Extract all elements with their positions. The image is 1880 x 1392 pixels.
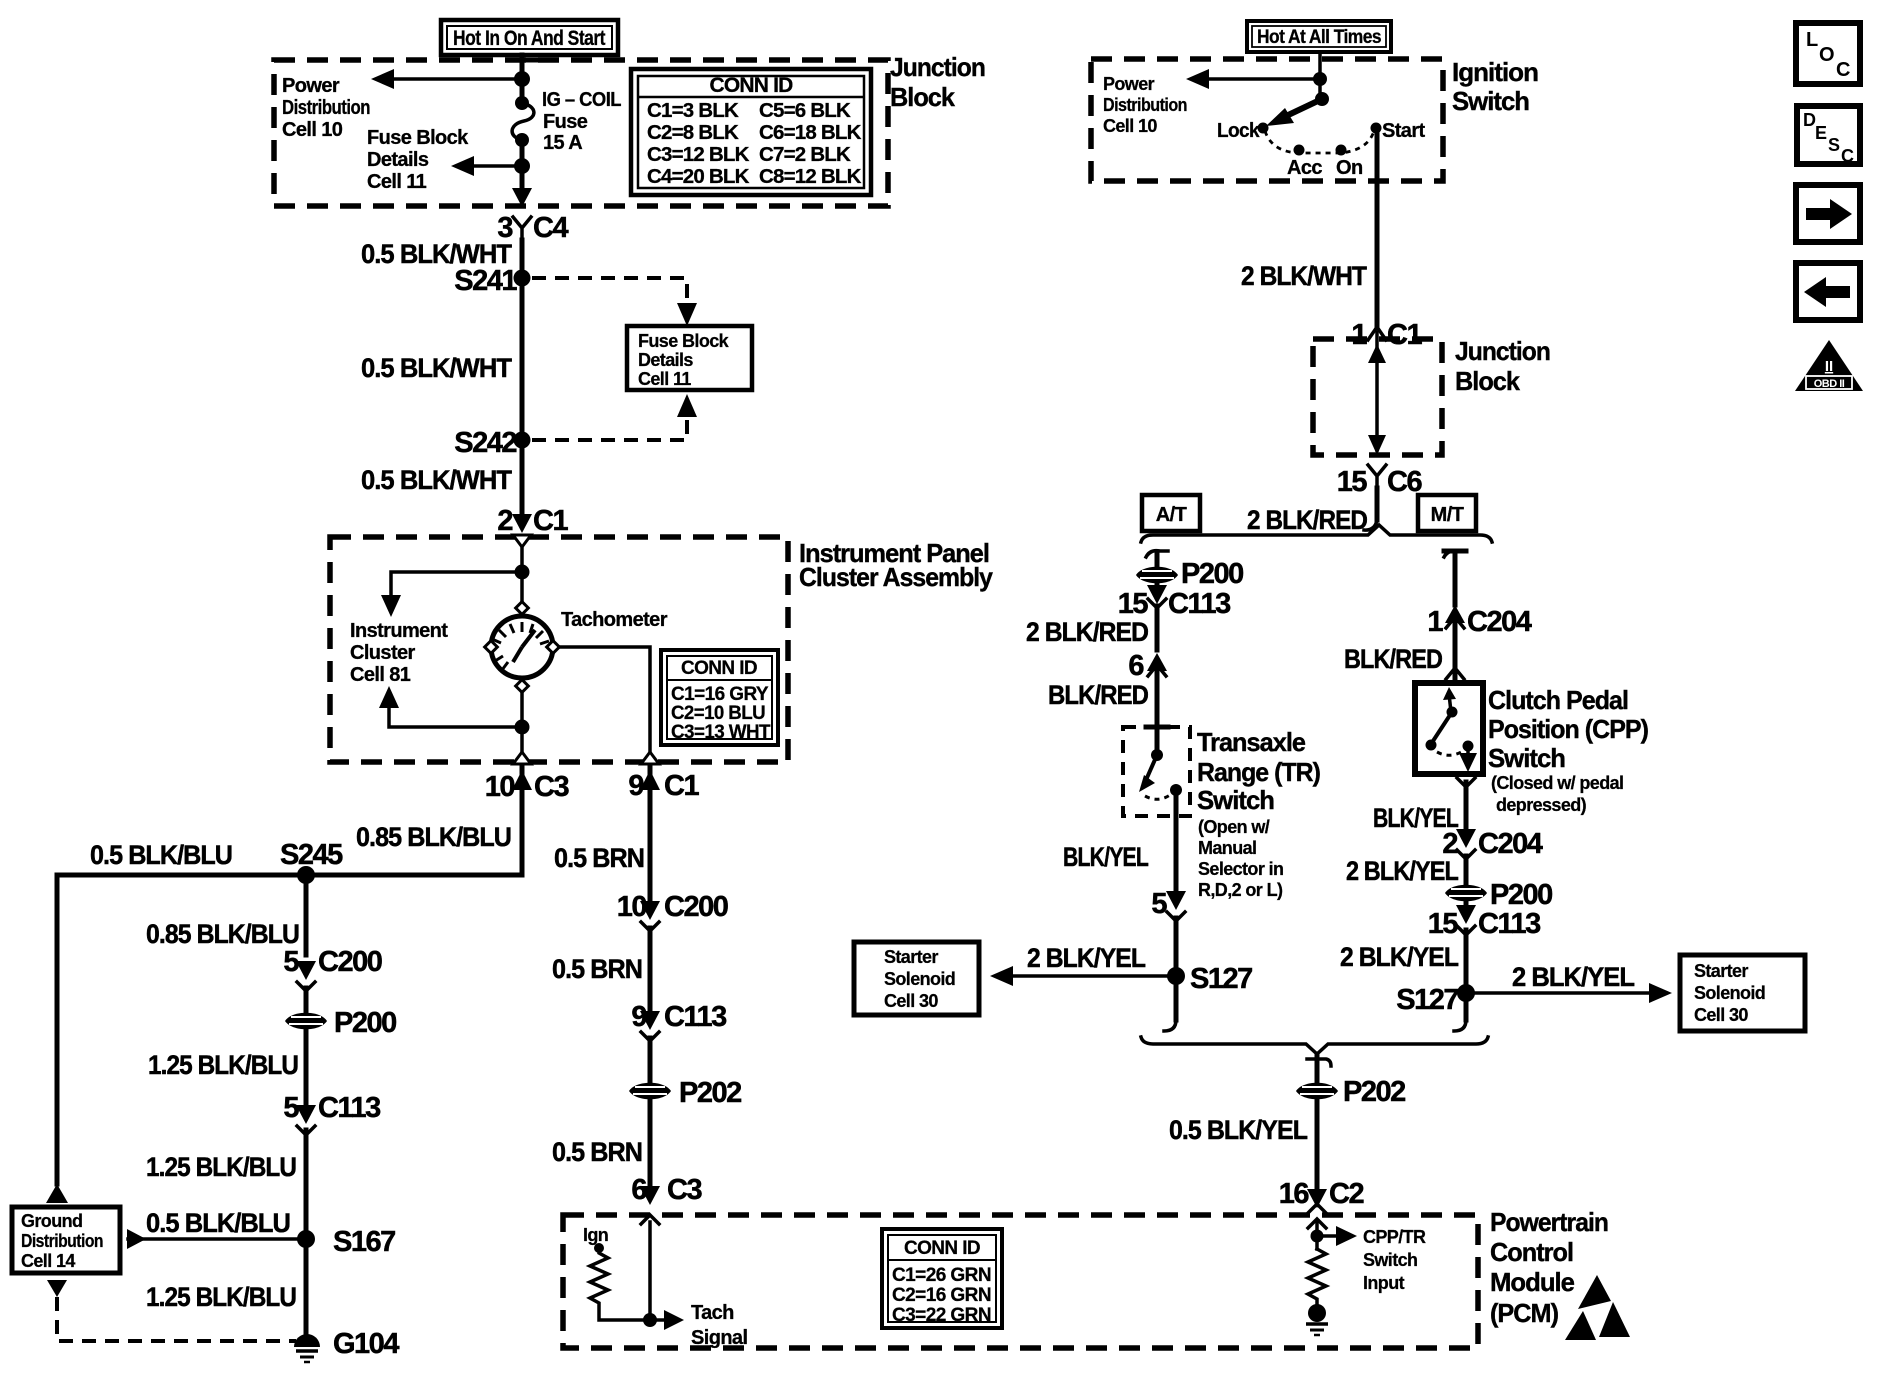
icon: DESC [1797,106,1860,166]
connector 5 (A/T) [1151,888,1186,921]
wire: PCM tach signal input [650,1222,667,1320]
svg-text:OBD II: OBD II [1814,378,1845,390]
svg-text:Junction: Junction [890,52,985,82]
svg-text:Cell 30: Cell 30 [884,991,938,1011]
svg-text:0.85 BLK/BLU: 0.85 BLK/BLU [146,919,299,949]
svg-text:Module: Module [1490,1267,1575,1297]
wire: 0.5 BLK/BLU to ground distribution [57,875,306,1182]
connector 15 C113 (M/T) [1428,902,1541,940]
svg-text:Cell 11: Cell 11 [367,171,427,193]
label: Junction Block (left) [890,52,985,112]
svg-text:C6=18 BLK: C6=18 BLK [759,121,862,144]
svg-text:Distribution: Distribution [282,97,370,119]
svg-text:C113: C113 [664,1001,727,1033]
TR switch contacts [1139,749,1182,799]
svg-text:C: C [1836,59,1850,81]
box: Ground Distribution Cell 14 [12,1207,120,1273]
wire segment to P200 [304,988,309,1012]
svg-text:0.5 BLK/WHT: 0.5 BLK/WHT [361,465,512,495]
svg-text:C4: C4 [533,212,568,244]
svg-text:Ground: Ground [21,1211,82,1231]
label: Instrument Cluster Cell 81 [350,620,448,686]
wire: 1.25 BLK/BLU to S167 [304,1130,309,1335]
wire: 2 BLK/YEL to starter solenoid (right) [1466,991,1653,995]
wire: 2 BLK/RED (A/T) [1155,606,1160,650]
dashed ground reference wire [47,1280,67,1297]
svg-text:1.25 BLK/BLU: 1.25 BLK/BLU [148,1050,298,1080]
wire: 0.85 BLK/BLU down to S245 [306,768,522,875]
svg-text:Fuse Block: Fuse Block [367,127,469,149]
svg-text:On: On [1336,157,1363,179]
svg-text:C1=3 BLK: C1=3 BLK [647,99,739,122]
dashed tap S242 to fuse block details box [532,420,687,440]
svg-text:2 BLK/RED: 2 BLK/RED [1247,505,1367,535]
wire: fuse to exit [520,140,525,192]
junction block (left) dashed box [274,60,888,206]
svg-text:(PCM): (PCM) [1490,1298,1558,1328]
wire: 0.5 BLK/WHT segment 1 [520,240,525,440]
splice S167 [297,1230,315,1248]
ground G104 [294,1328,399,1362]
wire: arrow to power distribution [390,77,522,81]
svg-text:C4=20 BLK: C4=20 BLK [647,165,750,188]
ignition switch rotor [1266,92,1329,126]
wire: stub to P202 [1307,1054,1331,1082]
connector 6 (A/T) [1128,650,1167,682]
label: A/T [1142,495,1200,531]
svg-text:S242: S242 [454,427,516,459]
svg-text:C2=16 GRN: C2=16 GRN [892,1285,991,1306]
svg-text:2 BLK/YEL: 2 BLK/YEL [1340,942,1458,972]
svg-text:M/T: M/T [1431,504,1464,526]
connector 15 C6 [1337,465,1423,498]
svg-text:C3=22 GRN: C3=22 GRN [892,1305,991,1326]
svg-text:C3: C3 [534,771,569,803]
wire: 0.5 BLK/YEL to PCM [1315,1100,1320,1190]
ESD symbol [1565,1275,1630,1340]
svg-text:BLK/RED: BLK/RED [1344,644,1442,674]
connector 2 C1 [497,505,568,537]
svg-text:10: 10 [485,771,515,803]
connector 10 C3 [485,770,570,803]
grommet P200 (A/T branch) [1136,558,1243,590]
svg-text:C5=6 BLK: C5=6 BLK [759,99,851,122]
icon: arrow left [1796,263,1860,320]
splice S127 (A/T) [1167,967,1185,985]
icon: arrow right [1796,185,1860,242]
svg-text:Input: Input [1363,1273,1405,1293]
svg-text:Signal: Signal [691,1327,747,1349]
connector 5 C200 [283,946,381,991]
svg-text:P200: P200 [1181,558,1243,590]
label: IG-COIL Fuse 15 A [542,89,621,154]
splice S245 [297,866,315,884]
svg-text:15: 15 [1118,588,1149,620]
svg-text:C200: C200 [318,946,382,978]
wire: arrow to fuse block details [470,164,522,168]
svg-text:15: 15 [1428,908,1459,940]
svg-text:C3: C3 [667,1174,702,1206]
svg-text:C204: C204 [1467,606,1532,638]
svg-text:0.5 BRN: 0.5 BRN [552,954,642,984]
connector triangle at panel top [513,535,531,547]
wire: tachometer bottom to C3 [520,692,524,753]
dashed tap S241 to fuse block details box [532,278,687,300]
label: Hot At All Times [1247,21,1391,52]
svg-text:BLK/RED: BLK/RED [1048,680,1148,710]
label: Tach Signal [691,1302,747,1349]
wire: 0.5 BLK/BLU ground distribution to S167 [128,1237,306,1241]
svg-text:Ign: Ign [583,1225,608,1245]
svg-text:G104: G104 [333,1328,399,1360]
svg-text:Starter: Starter [1694,961,1748,981]
label: Instrument Panel Cluster Assembly [799,538,993,592]
svg-text:Solenoid: Solenoid [1694,983,1765,1003]
node: fuse block details tap [514,158,530,174]
svg-text:C8=12 BLK: C8=12 BLK [759,165,862,188]
label: Power Distribution Cell 10 (left) [282,75,370,141]
wire: 0.5 BRN segment 3 [648,1100,653,1185]
wire: arrow to instrument cluster cell 81 (bottom) [389,705,522,727]
grommet P200 (left) [285,1007,396,1039]
svg-text:Cluster: Cluster [350,642,416,664]
svg-text:1.25 BLK/BLU: 1.25 BLK/BLU [146,1152,296,1182]
node: cluster return tap [515,720,530,735]
svg-text:1: 1 [1351,319,1367,351]
svg-text:Block: Block [890,82,955,112]
svg-text:depressed): depressed) [1496,795,1587,815]
connector chevron into PCM [641,1215,659,1224]
svg-text:2 BLK/WHT: 2 BLK/WHT [1241,261,1367,291]
resistor (CPP/TR input) [1308,1249,1326,1306]
svg-text:Cell 30: Cell 30 [1694,1005,1748,1025]
svg-text:CPP/TR: CPP/TR [1363,1227,1426,1247]
svg-text:R,D,2 or L): R,D,2 or L) [1198,880,1283,900]
svg-text:Transaxle: Transaxle [1197,727,1306,757]
connector 5 C113 [283,1092,381,1135]
svg-text:A/T: A/T [1156,504,1187,526]
svg-text:10: 10 [617,891,647,923]
svg-text:2 BLK/YEL: 2 BLK/YEL [1346,856,1458,886]
svg-text:0.5 BRN: 0.5 BRN [554,843,644,873]
svg-text:9: 9 [628,770,644,802]
svg-text:C1=16 GRY: C1=16 GRY [671,684,769,705]
svg-text:2 BLK/RED: 2 BLK/RED [1026,617,1148,647]
label: Junction Block (right) [1455,336,1550,396]
svg-text:S167: S167 [333,1226,395,1258]
svg-text:C113: C113 [1478,908,1541,940]
wire: ignition feed into junction block [520,55,525,100]
svg-text:2 BLK/YEL: 2 BLK/YEL [1512,962,1634,992]
svg-text:Switch: Switch [1452,86,1529,116]
svg-text:C: C [1841,146,1854,166]
svg-text:0.85 BLK/BLU: 0.85 BLK/BLU [356,822,511,852]
svg-text:C200: C200 [664,891,728,923]
svg-text:5: 5 [283,1092,299,1124]
brace: split to A/T and M/T [1141,525,1492,542]
wire: 0.5 BRN tach signal column [648,768,653,910]
ground (PCM internal) [1306,1304,1328,1335]
svg-text:Switch: Switch [1363,1250,1417,1270]
svg-text:P200: P200 [334,1007,396,1039]
svg-text:Cluster Assembly: Cluster Assembly [799,562,993,592]
powertrain control module dashed box [563,1215,1478,1348]
connector 9 C113 [631,1001,727,1041]
svg-text:2 BLK/YEL: 2 BLK/YEL [1027,943,1145,973]
connector 16 C2 [1279,1178,1364,1210]
svg-text:S127: S127 [1396,984,1458,1016]
svg-text:6: 6 [1128,650,1144,682]
brace: A/T M/T merge [1141,1037,1488,1054]
svg-text:5: 5 [1151,888,1167,920]
grommet P202 (right) [1296,1076,1405,1108]
connector triangles at panel bottom [513,752,531,764]
svg-text:Distribution: Distribution [21,1231,103,1251]
svg-text:Fuse: Fuse [543,111,588,133]
transaxle range switch dashed box [1123,727,1190,816]
wire: 2 BLK/YEL to P200 [1464,856,1469,884]
wire: CPP/TR input inside PCM [1315,1222,1319,1249]
svg-text:Junction: Junction [1455,336,1550,366]
CPP switch contacts [1426,687,1478,772]
box: Starter Solenoid Cell 30 (right) [1680,955,1805,1031]
svg-text:1: 1 [1427,606,1443,638]
svg-text:P202: P202 [1343,1076,1405,1108]
svg-text:16: 16 [1279,1178,1310,1210]
node: feed tap [1313,72,1327,86]
wire: 0.5 BLK/WHT segment 3 [520,440,525,520]
label: Clutch Pedal Position (CPP) Switch [1488,685,1648,815]
connector exit arrow from junction block [512,188,532,207]
wire: arrow to instrument cluster cell 81 (top) [391,572,522,598]
svg-text:Selector in: Selector in [1198,859,1283,879]
wire: arrow to power distribution (right) [1205,77,1320,81]
wire: BLK/RED into CPP switch [1453,620,1458,683]
svg-text:1.25 BLK/BLU: 1.25 BLK/BLU [146,1282,296,1312]
svg-text:Lock: Lock [1217,120,1260,142]
wire: C1 feed inside panel [520,547,524,608]
conn id table (junction block) [631,69,871,195]
svg-text:Position (CPP): Position (CPP) [1488,714,1648,744]
svg-text:Control: Control [1490,1237,1573,1267]
node: power distribution tap [514,71,530,87]
svg-text:BLK/YEL: BLK/YEL [1063,842,1148,872]
svg-text:Clutch Pedal: Clutch Pedal [1488,685,1628,715]
svg-text:15: 15 [1337,466,1368,498]
svg-text:Details: Details [367,149,429,171]
svg-text:Range (TR): Range (TR) [1197,757,1320,787]
node: tach signal junction [643,1313,657,1327]
node: cluster feed tap [515,565,530,580]
svg-text:(Open w/: (Open w/ [1198,817,1270,837]
splice S241 [514,270,531,287]
label: Fuse Block Details Cell 11 (left) [367,127,469,193]
fuse IG-COIL 15A [512,96,534,147]
ignition switch contacts Lock Acc On Start [1217,120,1426,179]
junction block (right) dashed box [1313,339,1442,455]
grommet P200 (M/T branch) [1445,879,1552,911]
splice S127 (M/T) [1457,984,1475,1002]
svg-text:Cell 11: Cell 11 [638,369,691,389]
svg-text:Power: Power [282,75,340,97]
svg-text:Cell 10: Cell 10 [1103,116,1157,136]
svg-text:S245: S245 [280,839,343,871]
wire: BLK/YEL from TR switch [1174,790,1179,890]
resistor (tach pull-up) [590,1243,650,1320]
svg-text:Cell 14: Cell 14 [21,1251,75,1271]
svg-text:Ignition: Ignition [1452,57,1538,87]
svg-text:P202: P202 [679,1077,741,1109]
svg-text:Fuse Block: Fuse Block [638,331,730,351]
svg-text:(Closed w/ pedal: (Closed w/ pedal [1491,773,1623,793]
svg-text:0.5 BLK/YEL: 0.5 BLK/YEL [1169,1115,1307,1145]
label: CPP/TR Switch Input [1363,1227,1426,1293]
wire through junction block [1375,332,1379,450]
svg-text:Instrument: Instrument [350,620,448,642]
svg-text:Tach: Tach [691,1302,734,1324]
wire: M/T branch stub [1444,551,1466,605]
svg-text:15 A: 15 A [543,132,582,154]
instrument panel cluster assembly dashed box [330,537,788,762]
svg-text:0.5 BLK/BLU: 0.5 BLK/BLU [90,840,232,870]
svg-text:Start: Start [1382,120,1426,142]
svg-text:C1: C1 [664,770,699,802]
svg-text:C2: C2 [1329,1178,1363,1210]
wire: 0.5 BRN segment 2 [648,928,653,1022]
svg-text:Block: Block [1455,366,1520,396]
icon: OBD II triangle [1795,340,1863,391]
wire: 1.25 BLK/BLU [304,1030,309,1105]
conn id table (cluster) [661,650,778,745]
svg-text:C3=12 BLK: C3=12 BLK [647,143,750,166]
label: Powertrain Control Module (PCM) [1490,1207,1608,1328]
svg-text:Acc: Acc [1287,157,1322,179]
svg-text:0.5 BLK/WHT: 0.5 BLK/WHT [361,353,512,383]
connector chevrons into PCM (right) [1308,1204,1326,1213]
svg-text:Manual: Manual [1198,838,1256,858]
box: Starter Solenoid Cell 30 (left) [854,942,979,1015]
svg-text:C3=13 WHT: C3=13 WHT [671,722,771,743]
connector 15 C113 (A/T) [1118,584,1231,620]
clutch pedal position switch box [1415,683,1483,774]
svg-text:Details: Details [638,350,693,370]
svg-text:CONN ID: CONN ID [904,1238,980,1259]
icon: LOC [1796,23,1860,84]
wire: BLK/RED into TR switch [1155,668,1160,752]
box: Fuse Block Details Cell 11 [627,326,752,390]
label: Transaxle Range (TR) Switch [1197,727,1320,900]
wire segment to P202 [648,1038,653,1082]
connector 1 C1 [1351,319,1422,351]
svg-text:S127: S127 [1190,963,1252,995]
svg-text:Hot In On And Start: Hot In On And Start [453,27,606,50]
wire: 2 BLK/YEL to S127 (M/T) [1464,930,1469,1020]
connector 6 C3 [631,1174,702,1206]
svg-text:C7=2 BLK: C7=2 BLK [759,143,851,166]
wire: 2 BLK/YEL to starter solenoid (left) [1009,974,1176,978]
svg-text:L: L [1806,29,1818,51]
svg-text:CONN ID: CONN ID [681,658,757,679]
splice S242 [514,432,531,449]
tachometer gauge [485,602,560,693]
svg-text:C1=26 GRN: C1=26 GRN [892,1265,991,1286]
svg-text:Distribution: Distribution [1103,95,1187,115]
wire: 0.85 BLK/BLU S245 down [304,875,309,955]
label: M/T [1418,495,1476,531]
wire: battery feed into ignition switch [1318,52,1322,99]
wire: 2 BLK/WHT from Start [1375,131,1380,325]
label: Hot In On And Start [441,20,618,55]
svg-text:E: E [1815,123,1827,143]
svg-text:C2=10 BLU: C2=10 BLU [671,703,765,724]
wire: tachometer output to C1 [559,647,650,753]
svg-text:Cell 81: Cell 81 [350,664,411,686]
wire: BLK/YEL from CPP switch [1457,778,1475,787]
svg-text:II: II [1825,358,1833,375]
connector 9 C1 [628,770,699,802]
svg-text:C1: C1 [1387,319,1422,351]
connector 2 C204 [1442,828,1542,860]
svg-text:0.5 BRN: 0.5 BRN [552,1137,642,1167]
svg-text:Solenoid: Solenoid [884,969,955,989]
svg-text:Starter: Starter [884,947,938,967]
wire: A/T branch stub [1146,551,1168,566]
label: Ignition Switch [1452,57,1538,116]
label: Power Distribution Cell 10 (right) [1103,74,1187,136]
svg-text:Powertrain: Powertrain [1490,1207,1608,1237]
svg-text:P200: P200 [1490,879,1552,911]
connector 10 C200 [617,891,728,931]
ignition switch dashed box [1091,59,1443,181]
svg-text:Switch: Switch [1197,785,1274,815]
svg-text:0.5 BLK/BLU: 0.5 BLK/BLU [146,1208,290,1238]
wire: BLK/YEL to S127 (A/T) [1174,918,1179,1020]
svg-text:C2=8 BLK: C2=8 BLK [647,121,739,144]
svg-text:S: S [1828,135,1840,155]
conn id table (PCM) [882,1229,1002,1328]
svg-text:S241: S241 [454,265,517,297]
svg-text:Power: Power [1103,74,1155,94]
wire: 2 BLK/RED stub to brace [1375,488,1380,520]
svg-text:C113: C113 [1168,588,1231,620]
svg-text:C204: C204 [1478,828,1543,860]
connector 1 C204 [1427,605,1531,638]
svg-text:2: 2 [497,505,512,537]
svg-text:IG – COIL: IG – COIL [542,89,621,111]
grommet P202 (middle) [629,1077,741,1109]
connector 3 C4 [497,212,568,244]
svg-text:O: O [1819,44,1835,66]
svg-text:C1: C1 [533,505,568,537]
svg-text:Cell 10: Cell 10 [282,119,343,141]
svg-text:CONN ID: CONN ID [709,74,793,97]
svg-text:C113: C113 [318,1092,381,1124]
svg-text:Hot At All Times: Hot At All Times [1257,27,1381,48]
svg-text:Tachometer: Tachometer [561,609,668,631]
svg-text:Switch: Switch [1488,743,1565,773]
